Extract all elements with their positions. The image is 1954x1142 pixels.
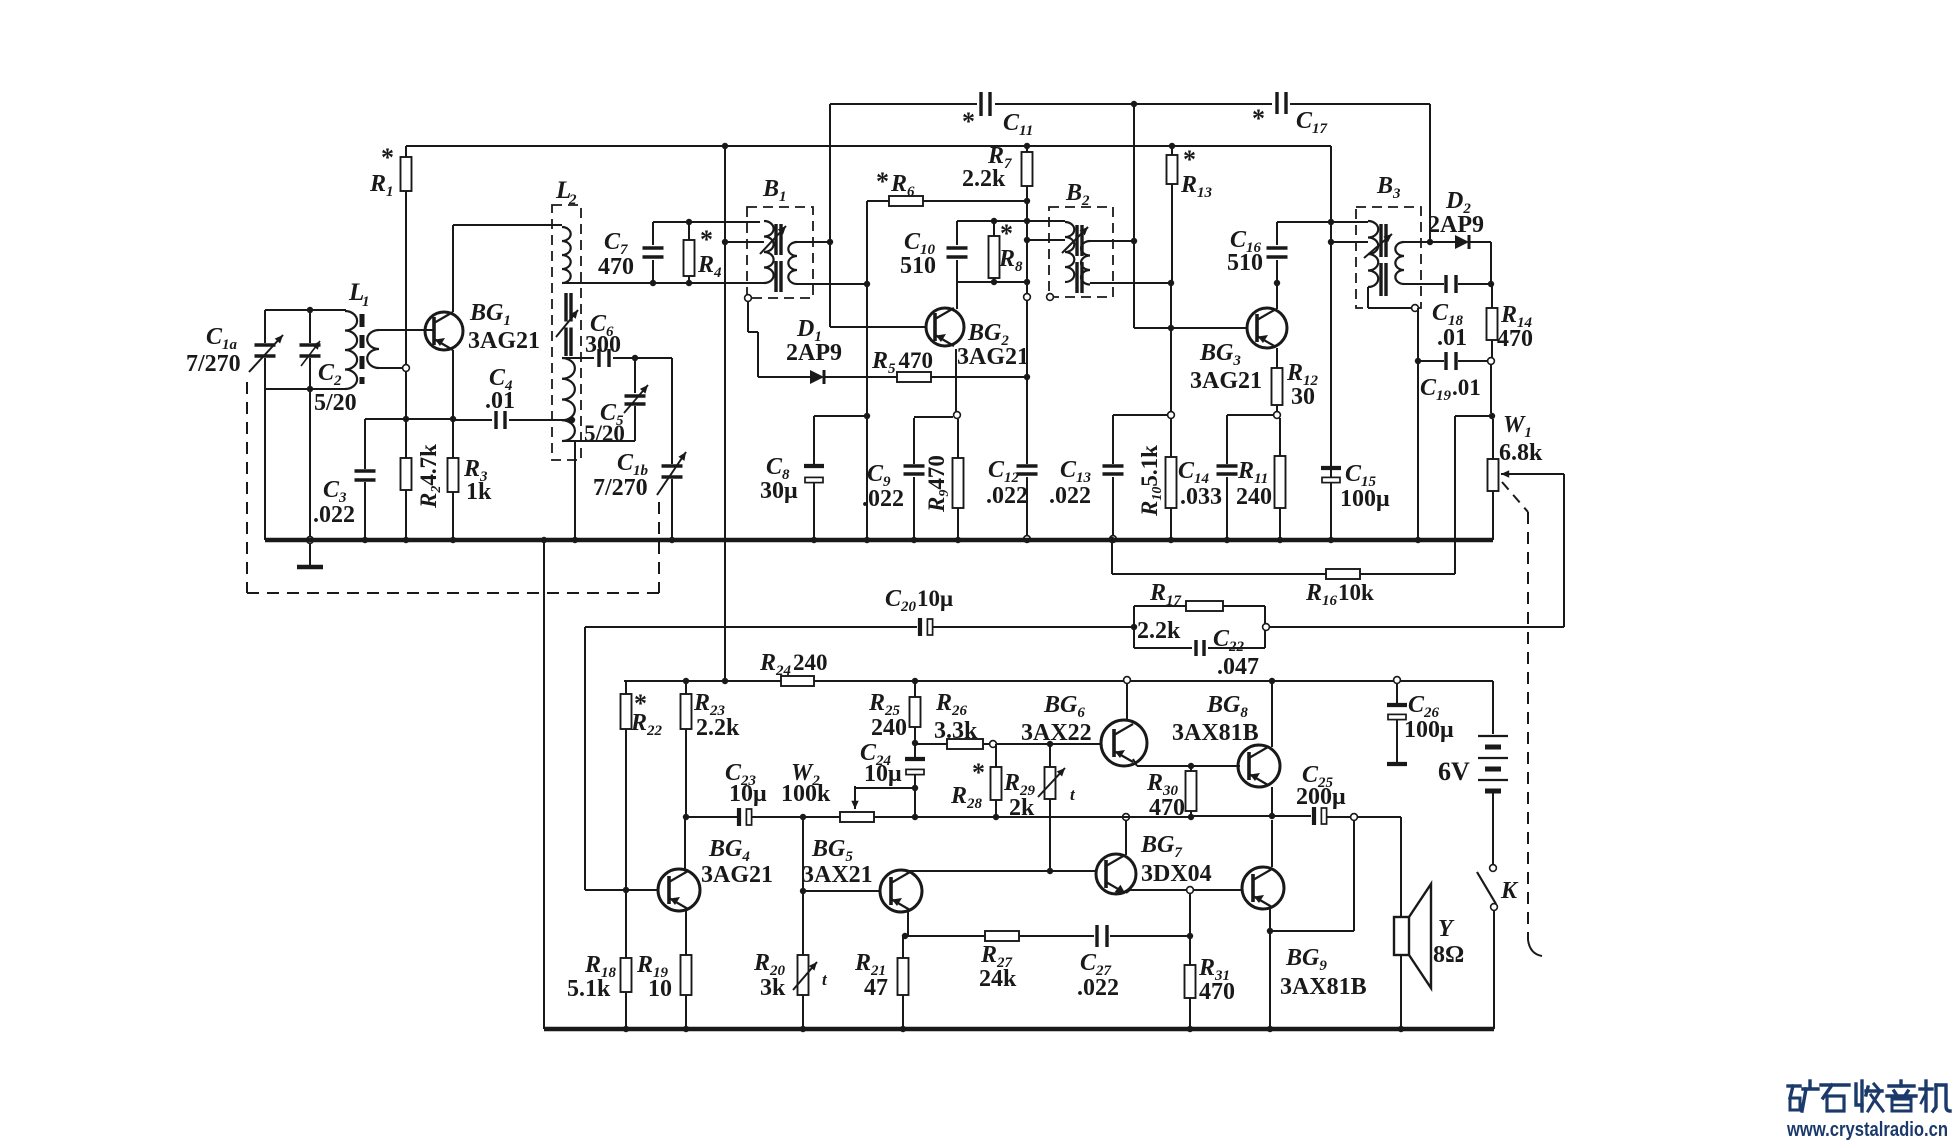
wire C25 return link (1353, 820, 1355, 931)
svg-text:.022: .022 (1049, 483, 1091, 509)
transistor BG8 (1238, 745, 1280, 787)
wire L1 secondary top to BG1 base (379, 329, 434, 331)
svg-text:*: * (1252, 104, 1265, 133)
svg-text:2.2k: 2.2k (1137, 618, 1181, 644)
wire R7 node vertical (1026, 201, 1028, 464)
wire BG2 emitter (955, 349, 957, 414)
svg-text:3DX04: 3DX04 (1141, 861, 1212, 887)
svg-text:2.2k: 2.2k (696, 715, 740, 741)
wire rail right corner (1330, 146, 1332, 540)
wire BG1 collector (452, 225, 454, 312)
transistor BG5 (880, 870, 922, 912)
wire C3 C4 row (365, 418, 453, 420)
wire main supply rail (406, 145, 1331, 147)
svg-text:*: * (972, 758, 985, 787)
svg-text:3AX21: 3AX21 (802, 862, 873, 888)
svg-text:100μ: 100μ (1340, 486, 1390, 512)
svg-text:10μ: 10μ (729, 781, 767, 807)
wire BG9 emitter (1269, 909, 1271, 1029)
wire BG3 collector (1276, 283, 1278, 309)
core B1 (774, 224, 777, 255)
svg-text:1: 1 (362, 294, 370, 310)
svg-text:C2010μ: C2010μ (885, 586, 953, 615)
svg-text:.01: .01 (1437, 325, 1467, 351)
wire C10 R8 top (957, 220, 1065, 222)
resistor R2 (405, 419, 407, 458)
wire BG5 emitter (907, 912, 909, 936)
wire R13 branch down (1170, 283, 1172, 412)
svg-text:470: 470 (1497, 326, 1533, 352)
svg-text:10: 10 (648, 976, 672, 1002)
svg-text:*: * (381, 143, 394, 172)
svg-text:5/20: 5/20 (314, 390, 357, 416)
ground (309, 543, 311, 566)
wire L2 primary bottom row (562, 282, 764, 284)
svg-text:1k: 1k (466, 479, 492, 505)
svg-text:3AX81B: 3AX81B (1172, 720, 1259, 746)
wire audio supply rail (624, 680, 1493, 682)
inductor B3 secondary (1395, 242, 1404, 284)
wire BG2 collector (956, 282, 958, 309)
svg-text:R24240: R24240 (759, 650, 828, 679)
wire B3 tap (1331, 241, 1368, 243)
trimmer arrow B2 (1062, 227, 1088, 253)
svg-text:.022: .022 (986, 483, 1028, 509)
wire D2 cathode down (1490, 242, 1492, 284)
svg-text:300: 300 (585, 332, 621, 358)
wire AGC branch 2 (1133, 104, 1135, 328)
svg-text:7/270: 7/270 (186, 351, 241, 377)
svg-text:.01: .01 (485, 388, 515, 414)
svg-text:.022: .022 (862, 486, 904, 512)
svg-text:100k: 100k (781, 781, 831, 807)
svg-text:47: 47 (864, 975, 888, 1001)
wire B3 bottom to bus (1367, 287, 1369, 308)
svg-text:2AP9: 2AP9 (786, 340, 842, 366)
inductor B2 secondary (1081, 241, 1090, 285)
transistor BG2 (926, 308, 964, 346)
svg-text:8Ω: 8Ω (1433, 942, 1464, 968)
wire BG1 emitter (452, 350, 454, 419)
trimmer arrow B3 (1364, 234, 1392, 258)
wire BG4 base (585, 889, 659, 891)
svg-text:3AG21: 3AG21 (701, 862, 773, 888)
svg-text:*: * (1000, 219, 1013, 248)
svg-text:510: 510 (1227, 250, 1263, 276)
wire L2 bottom to bus (574, 441, 576, 540)
svg-text:5/20: 5/20 (584, 421, 625, 446)
svg-text:240: 240 (871, 715, 907, 741)
svg-text:470: 470 (1199, 979, 1235, 1005)
wire gang bottom (265, 388, 346, 390)
wire BG7 emitter to BG9 base (1126, 890, 1130, 893)
svg-text:240: 240 (1236, 484, 1272, 510)
ganging dashed link (246, 382, 248, 593)
wire BG6 emitter to BG8 base (1133, 759, 1137, 766)
wire B1 secondary top to AGC (797, 241, 830, 243)
transistor BG6 (1101, 720, 1147, 766)
wire C7 R4 top to B1 (653, 221, 760, 223)
wire B2 tap (1027, 239, 1065, 241)
ground bus top section (265, 538, 1493, 543)
wire C2 ground leg (309, 389, 311, 537)
wire C16 B3 top (1277, 221, 1368, 223)
svg-text:R24.7k: R24.7k (416, 444, 444, 509)
svg-text:30: 30 (1291, 384, 1315, 410)
wire output row (996, 816, 1126, 818)
dashed link W1 to K (1502, 482, 1528, 512)
wire L2 C6 row (562, 357, 594, 359)
svg-text:3AG21: 3AG21 (1190, 368, 1262, 394)
svg-text:6V: 6V (1438, 757, 1470, 786)
inductor L2 primary (562, 227, 571, 283)
svg-text:7/270: 7/270 (593, 475, 648, 501)
inductor B3 primary (1368, 221, 1378, 287)
inductor B1 primary (764, 221, 774, 283)
wire BG4 collector (684, 817, 686, 870)
wire gang top (265, 309, 346, 311)
core B3 (1379, 224, 1382, 257)
svg-text:*: * (700, 225, 713, 254)
node L1 secondary bottom (403, 365, 410, 372)
svg-text:K: K (1500, 878, 1519, 904)
wire BG8 collector (1271, 681, 1273, 747)
wire AGC rail right corner down to D2 (1429, 104, 1431, 242)
svg-text:*: * (1183, 145, 1196, 174)
svg-text:R1610k: R1610k (1305, 580, 1374, 609)
wire B1 secondary bottom (797, 283, 867, 285)
wire BG5 collector to BG7 base row (907, 870, 909, 872)
wire volume top node (1489, 413, 1495, 419)
wiper W1 (1501, 473, 1564, 475)
svg-text:24k: 24k (979, 966, 1017, 992)
svg-text:.033: .033 (1180, 484, 1222, 510)
wire B2 secondary bottom (1090, 282, 1171, 284)
svg-text:200μ: 200μ (1296, 784, 1346, 810)
core L2 (564, 293, 567, 322)
wire AGC top rail (830, 103, 977, 105)
transistor BG7 (1096, 854, 1136, 894)
wire NFB row (905, 935, 985, 937)
capacitor C17 (1275, 92, 1278, 114)
svg-text:5.1k: 5.1k (567, 976, 611, 1002)
resistor R9 (957, 419, 959, 458)
inductor B2 primary (1065, 222, 1074, 282)
svg-text:www.crystalradio.cn: www.crystalradio.cn (1786, 1119, 1948, 1141)
svg-text:6.8k: 6.8k (1499, 440, 1543, 466)
trimmer arrow B1 (760, 226, 786, 254)
wire BG9 collector (1271, 820, 1273, 867)
svg-text:3AX81B: 3AX81B (1280, 974, 1367, 1000)
capacitor C11 (979, 92, 982, 116)
core B2 (1075, 225, 1078, 256)
svg-text:10μ: 10μ (864, 761, 902, 787)
svg-text:30μ: 30μ (760, 478, 798, 504)
wire BG6 collector (1126, 683, 1128, 721)
wire preamp coupling row (685, 816, 737, 818)
svg-text:*: * (876, 167, 889, 196)
watermark logo (1788, 1084, 1800, 1087)
wire gang left down to bus (264, 389, 266, 540)
wire B2 secondary top (1090, 240, 1134, 242)
wire BG5 base branch (802, 817, 804, 891)
trimmer arrow L2 (556, 310, 578, 337)
wire audio input row (585, 626, 917, 628)
wire C4 to L2 tap (509, 419, 572, 421)
svg-text:Y: Y (1438, 916, 1455, 942)
svg-text:2.2k: 2.2k (962, 166, 1006, 192)
ground bus audio section (543, 540, 545, 1029)
svg-text:100μ: 100μ (1404, 717, 1454, 743)
inductor L2 feedback winding (562, 358, 575, 441)
wire BG8 emitter (1271, 787, 1273, 816)
svg-text:R9470: R9470 (924, 455, 952, 513)
svg-text:470: 470 (598, 254, 634, 280)
wire AGC branch to BG2 base (829, 104, 831, 327)
svg-text:2AP9: 2AP9 (1428, 212, 1484, 238)
wire L2 block bottom (562, 440, 635, 442)
wire D1 anode link (757, 332, 759, 377)
svg-text:.047: .047 (1217, 654, 1259, 680)
svg-text:3k: 3k (760, 975, 786, 1001)
svg-text:3AG21: 3AG21 (957, 344, 1029, 370)
wire L1 secondary bottom (379, 367, 403, 369)
transistor BG4 (658, 869, 700, 911)
wire supply drop to audio (724, 146, 726, 681)
wiper W2 (854, 786, 856, 809)
node B1 primary bottom pin (745, 295, 752, 302)
wire left branch vertical (866, 201, 868, 540)
wire BG7 collector (1125, 820, 1127, 855)
svg-text:R105.1k: R105.1k (1137, 445, 1165, 517)
wire audio in vertical (584, 627, 586, 890)
transistor BG9 (1242, 867, 1284, 909)
node B2 pins (1024, 294, 1031, 301)
transistor BG3 (1247, 308, 1287, 348)
transistor BG1 (425, 312, 463, 350)
wire C10 R8 bottom (957, 281, 1027, 283)
svg-text:3AG21: 3AG21 (468, 328, 540, 354)
svg-text:510: 510 (900, 253, 936, 279)
inductor B1 secondary (788, 242, 797, 284)
svg-text:.022: .022 (313, 502, 355, 528)
wire B1 tap feed (722, 239, 728, 245)
svg-text:*: * (962, 107, 975, 136)
svg-text:3AX22: 3AX22 (1021, 720, 1092, 746)
resistor R10 (1170, 418, 1172, 457)
svg-text:.022: .022 (1077, 975, 1119, 1001)
